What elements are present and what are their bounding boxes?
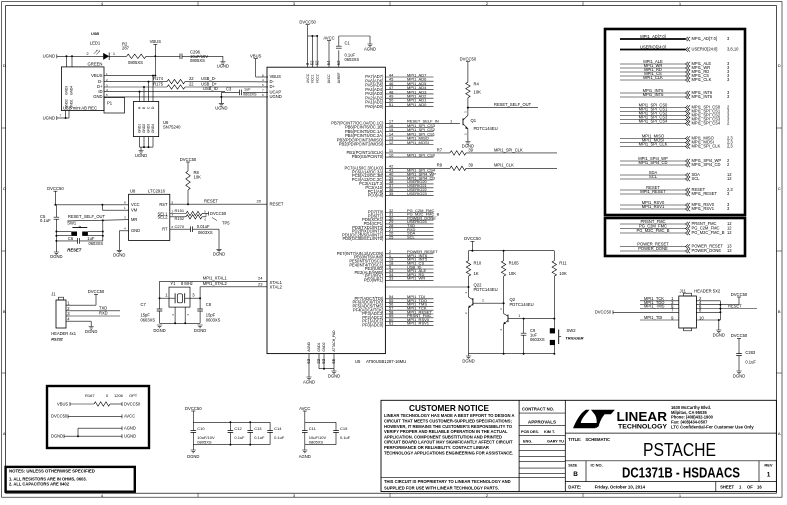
- svg-text:PDTC144EU: PDTC144EU: [474, 126, 498, 131]
- svg-text:10K: 10K: [509, 271, 517, 276]
- capacitor C1 0.1uF 0603XS: [338, 50, 340, 67]
- svg-text:R9: R9: [437, 163, 443, 168]
- svg-text:D-: D-: [98, 79, 103, 84]
- svg-text:RESET: RESET: [270, 201, 284, 206]
- svg-text:0603XS: 0603XS: [89, 241, 104, 246]
- svg-text:24: 24: [258, 276, 263, 281]
- svg-text:33: 33: [389, 276, 394, 281]
- svg-text:0.1uF: 0.1uF: [40, 218, 51, 223]
- svg-text:DGND: DGND: [328, 373, 340, 378]
- svg-text:3,8,10: 3,8,10: [727, 47, 739, 52]
- wire Q2 base to C9/SW2: [508, 318, 554, 320]
- svg-text:VCC: VCC: [131, 202, 140, 207]
- svg-text:DGND: DGND: [462, 144, 474, 149]
- svg-text:PDTC144EU: PDTC144EU: [474, 287, 498, 292]
- svg-text:PDTC144EU: PDTC144EU: [510, 302, 534, 307]
- svg-text:SEL2: SEL2: [157, 215, 168, 220]
- svg-text:DGND: DGND: [187, 454, 199, 459]
- svg-text:HOWEVER, IT REMAINS THE CUSTOM: HOWEVER, IT REMAINS THE CUSTOMER’S RESPO…: [384, 424, 513, 429]
- svg-text:0.1uF: 0.1uF: [340, 435, 351, 440]
- wire R2 to C296: [146, 55, 180, 57]
- svg-text:UGND: UGND: [215, 106, 227, 111]
- svg-text:POWER_DONE: POWER_DONE: [638, 246, 668, 251]
- U6 pins down to UGND: [139, 137, 141, 148]
- svg-text:ATTACH_PAD: ATTACH_PAD: [332, 330, 336, 352]
- capacitor C11 10uF/10V: [304, 422, 306, 430]
- svg-text:AGND: AGND: [299, 454, 311, 459]
- svg-text:R11: R11: [559, 260, 567, 265]
- svg-text:LINEAR: LINEAR: [617, 410, 668, 424]
- wire net USB_D+ : P1 to IC D+: [104, 86, 167, 88]
- svg-text:KIM T.: KIM T.: [544, 430, 555, 434]
- svg-text:C3: C3: [226, 86, 232, 91]
- ground DGND (C7): [157, 325, 162, 328]
- svg-text:DVCC50: DVCC50: [47, 186, 64, 191]
- wire U8 GND to DGND: [119, 230, 128, 232]
- svg-text:RXD: RXD: [99, 311, 108, 316]
- LT logo: [573, 410, 599, 428]
- svg-text:PF0(ADC0): PF0(ADC0): [362, 323, 384, 328]
- svg-text:MPI1_TMS: MPI1_TMS: [644, 304, 665, 309]
- svg-text:UGND: UGND: [43, 115, 55, 120]
- svg-text:0603XS: 0603XS: [198, 230, 213, 235]
- svg-text:0603XS: 0603XS: [530, 337, 545, 342]
- svg-text:OPT: OPT: [129, 393, 138, 398]
- svg-text:0603XS: 0603XS: [243, 93, 257, 97]
- svg-text:MPI1_AD0: MPI1_AD0: [407, 102, 427, 107]
- svg-text:AVCC: AVCC: [124, 414, 135, 419]
- svg-text:SHEET: SHEET: [720, 485, 734, 490]
- svg-text:PE0(WRL): PE0(WRL): [364, 278, 384, 283]
- ground DGND (C270): [216, 249, 221, 252]
- wire net UGND row P1 GND to IC UGND: [104, 96, 268, 98]
- svg-text:P1: P1: [107, 101, 113, 106]
- capacitor C15 0.1uF: [335, 422, 337, 430]
- svg-text:THIS CIRCUIT IS PROPRIETARY TO: THIS CIRCUIT IS PROPRIETARY TO LINEAR TE…: [384, 479, 511, 484]
- svg-text:USB_D-: USB_D-: [201, 76, 217, 81]
- svg-text:C11: C11: [309, 426, 317, 431]
- svg-text:R151: R151: [175, 208, 185, 213]
- svg-text:Q1: Q1: [471, 118, 477, 123]
- svg-text:R4: R4: [474, 81, 480, 86]
- svg-text:DGND: DGND: [733, 373, 745, 378]
- svg-text:UGND: UGND: [270, 94, 282, 99]
- svg-text:MPI1_SPI_CLK: MPI1_SPI_CLK: [692, 144, 721, 149]
- svg-text:AGND: AGND: [364, 46, 376, 51]
- svg-text:20: 20: [257, 199, 262, 204]
- power option box with R167: [47, 386, 149, 448]
- svg-text:DGND: DGND: [113, 252, 125, 257]
- svg-text:DVCC50: DVCC50: [464, 236, 481, 241]
- svg-text:R7: R7: [437, 147, 443, 152]
- svg-text:GND2: GND2: [142, 124, 146, 133]
- capacitor C9 1uF 0603XS: [523, 318, 525, 333]
- svg-text:MPI1_RSV1: MPI1_RSV1: [642, 204, 665, 209]
- svg-text:MPI1_AD[7:0]: MPI1_AD[7:0]: [640, 34, 665, 39]
- wire net USB_ID: [104, 91, 225, 93]
- svg-text:VCC1: VCC1: [311, 74, 315, 83]
- svg-text:39: 39: [468, 163, 473, 168]
- svg-text:C7: C7: [141, 302, 147, 307]
- svg-text:DGND: DGND: [51, 434, 63, 439]
- svg-text:UVCC: UVCC: [306, 73, 310, 83]
- svg-text:GND1: GND1: [70, 99, 74, 108]
- svg-text:GND: GND: [131, 228, 140, 233]
- svg-text:VBUS: VBUS: [91, 73, 103, 78]
- ground AGND (C1): [367, 44, 372, 47]
- junction dots P1 top pins on LED wire: [65, 55, 67, 57]
- svg-text:NOTES: UNLESS OTHERWISE SPECI: NOTES: UNLESS OTHERWISE SPECIFIED: [9, 469, 95, 474]
- svg-text:R10: R10: [474, 260, 482, 265]
- svg-text:16: 16: [757, 485, 762, 490]
- svg-text:MPI1_WR: MPI1_WR: [407, 276, 425, 281]
- svg-text:0603XS: 0603XS: [345, 57, 360, 62]
- J11 pins 3/4 MPI1_TDO: [640, 304, 679, 306]
- ground AGND (U5): [306, 377, 311, 380]
- svg-text:DATE:: DATE:: [568, 485, 582, 490]
- svg-text:GREEN: GREEN: [88, 61, 103, 66]
- svg-text:0805XS: 0805XS: [128, 60, 143, 65]
- J11 pins 5/6 MPI1_TMS: [640, 308, 679, 310]
- svg-text:22: 22: [189, 81, 194, 86]
- svg-text:0805XS: 0805XS: [190, 58, 205, 63]
- testpoint TP5: [212, 218, 217, 221]
- wire AGND joint: [78, 427, 122, 429]
- wire P1 VBUS to VBUS net: [104, 75, 155, 77]
- svg-text:B: B: [3, 309, 6, 314]
- svg-text:C10: C10: [197, 426, 205, 431]
- svg-text:J1: J1: [51, 292, 56, 297]
- svg-text:51: 51: [389, 102, 394, 107]
- svg-text:35: 35: [389, 191, 394, 196]
- svg-text:PB2(PDI/PCINT2/MOSI): PB2(PDI/PCINT2/MOSI): [339, 142, 384, 147]
- resistor R11 10K: [552, 261, 556, 277]
- svg-text:DGND: DGND: [85, 329, 97, 334]
- wire crystal case pins to ground rail: [174, 307, 176, 323]
- svg-text:SUPPLIED FOR USE WITH LINEAR T: SUPPLIED FOR USE WITH LINEAR TECHNOLOGY …: [384, 486, 499, 491]
- svg-text:R175: R175: [153, 81, 164, 86]
- svg-text:RESET: RESET: [204, 199, 218, 204]
- ground DGND (Q1): [465, 142, 470, 145]
- wire XTAL2 down to C8: [199, 287, 201, 309]
- svg-text:XTAL2: XTAL2: [270, 284, 283, 289]
- svg-text:0805XS: 0805XS: [197, 440, 212, 445]
- svg-text:AGND: AGND: [307, 341, 311, 351]
- svg-text:0.1uF: 0.1uF: [745, 359, 756, 364]
- wire net RESET_SELF_OUT: [468, 107, 538, 109]
- P1 pins GND1/GND2 down to UGND: [65, 111, 67, 119]
- svg-text:IC NO.: IC NO.: [591, 463, 603, 468]
- svg-text:OF: OF: [747, 485, 753, 490]
- svg-text:DVCC50: DVCC50: [731, 292, 748, 297]
- svg-text:RESET_SELF_OUT: RESET_SELF_OUT: [494, 102, 532, 107]
- svg-text:DVCC50: DVCC50: [124, 401, 141, 406]
- svg-text:SN75240: SN75240: [163, 125, 181, 130]
- svg-text:USB_ID: USB_ID: [203, 86, 218, 91]
- wire trigger bottom rail: [469, 353, 555, 355]
- svg-text:D: D: [3, 63, 6, 68]
- svg-text:MPI1_RESET: MPI1_RESET: [692, 191, 718, 196]
- svg-text:2,3: 2,3: [727, 144, 733, 149]
- svg-text:UGND: UGND: [43, 54, 55, 59]
- wire trigger top rail: [469, 250, 555, 252]
- svg-text:DGND: DGND: [213, 251, 225, 256]
- svg-text:DVCC50: DVCC50: [299, 20, 316, 25]
- svg-text:DC1371B - HSDAACS: DC1371B - HSDAACS: [622, 466, 740, 482]
- svg-text:DGND: DGND: [462, 358, 474, 363]
- IC U8 LTC2916: [129, 194, 170, 240]
- svg-text:AVCC: AVCC: [327, 74, 331, 84]
- svg-text:DVCC50: DVCC50: [595, 310, 612, 315]
- svg-text:DGND: DGND: [194, 328, 206, 333]
- svg-text:USB: USB: [91, 32, 99, 36]
- wire UGND to LED1: [57, 55, 103, 57]
- svg-text:PD0(OC0B/SCL/INT0): PD0(OC0B/SCL/INT0): [342, 236, 384, 241]
- svg-text:10K: 10K: [559, 271, 567, 276]
- capacitor C12 0.1uF: [229, 422, 231, 430]
- svg-text:0805XS: 0805XS: [309, 440, 324, 445]
- svg-text:TECHNOLOGY: TECHNOLOGY: [618, 424, 667, 431]
- svg-text:GND1: GND1: [317, 342, 321, 351]
- size/icno/rev row: [585, 461, 587, 482]
- svg-text:C13: C13: [254, 426, 262, 431]
- svg-text:C1: C1: [345, 41, 351, 46]
- svg-text:GARY YU: GARY YU: [547, 440, 564, 444]
- svg-text:GND4: GND4: [151, 124, 155, 133]
- svg-text:SCL: SCL: [407, 234, 416, 239]
- svg-text:R167: R167: [85, 393, 95, 398]
- svg-text:1: 1: [482, 299, 484, 303]
- svg-text:0.1uF: 0.1uF: [274, 435, 285, 440]
- svg-text:C8: C8: [206, 302, 212, 307]
- svg-text:RT: RT: [162, 226, 168, 231]
- svg-text:PSTACHE: PSTACHE: [643, 439, 716, 460]
- svg-text:DGND: DGND: [713, 332, 725, 337]
- svg-text:MPI1_SPI_CS4: MPI1_SPI_CS4: [692, 121, 721, 126]
- ground UGND (below C3): [219, 103, 224, 106]
- svg-text:0.1uF: 0.1uF: [254, 435, 265, 440]
- svg-text:HEADER 5X2: HEADER 5X2: [694, 289, 721, 294]
- svg-text:APPLICATION. COMPONENT SUBSTI: APPLICATION. COMPONENT SUBSTITUTION AND …: [384, 434, 502, 439]
- svg-text:12: 12: [727, 176, 732, 181]
- svg-text:SCHEMATIC: SCHEMATIC: [585, 437, 610, 442]
- svg-text:SW2: SW2: [567, 328, 577, 333]
- svg-text:GND: GND: [93, 94, 102, 99]
- svg-text:1: 1: [518, 314, 520, 318]
- ground UGND (below U6): [138, 151, 143, 154]
- wire C296 to UGND: [182, 55, 223, 57]
- svg-text:PB0(SS/PCINT0): PB0(SS/PCINT0): [352, 154, 384, 159]
- wire net RESET : U8 RST to IC pin 20: [170, 203, 267, 205]
- svg-text:287: 287: [122, 46, 130, 51]
- svg-text:0603XS: 0603XS: [141, 317, 156, 322]
- svg-text:VERIFY PROPER AND RELIABLE OPE: VERIFY PROPER AND RELIABLE OPERATION IN …: [384, 429, 508, 434]
- svg-text:DVCC50: DVCC50: [180, 157, 197, 162]
- svg-text:10K: 10K: [194, 175, 202, 180]
- wire DVCC50 to U8 VCC: [55, 204, 128, 206]
- capacitor C14 0.1uF: [269, 422, 271, 430]
- resistor R4 10K: [466, 82, 470, 97]
- svg-text:PA0(AD0): PA0(AD0): [365, 104, 384, 109]
- svg-text:TITLE:: TITLE:: [568, 437, 581, 442]
- svg-text:GND1: GND1: [138, 124, 142, 133]
- svg-text:C: C: [778, 186, 781, 191]
- P1 pins GND3/GND4 up to UGND wire: [65, 56, 67, 67]
- svg-text:10K: 10K: [474, 89, 482, 94]
- resistor R10 1K: [466, 261, 470, 277]
- svg-text:GND4: GND4: [70, 86, 74, 95]
- svg-text:C12: C12: [234, 426, 242, 431]
- svg-text:R152: R152: [175, 216, 185, 221]
- svg-text:MR: MR: [131, 217, 137, 222]
- transistor Q1 PDTC144EU: [462, 118, 464, 125]
- switch SW2 TRIGGER: [550, 328, 555, 333]
- capacitor C296 10uF/10V: [180, 54, 182, 60]
- capacitor C3 1uF 0603XS on UCAP: [243, 91, 268, 93]
- svg-text:MPI1_MOSI: MPI1_MOSI: [407, 140, 429, 145]
- ground DGND (C8): [198, 325, 203, 328]
- svg-text:0603XS: 0603XS: [206, 317, 221, 322]
- svg-text:AT90USB1287-16MU: AT90USB1287-16MU: [366, 359, 406, 364]
- svg-text:PCB DES.: PCB DES.: [521, 430, 539, 434]
- power bracket DVCC50 (SEL): [208, 212, 210, 216]
- svg-text:13: 13: [727, 248, 732, 253]
- ground DGND (cap bank): [191, 450, 196, 453]
- svg-text:C15: C15: [340, 426, 348, 431]
- svg-text:A: A: [3, 431, 6, 436]
- svg-text:DVCC50: DVCC50: [88, 289, 105, 294]
- svg-text:DVCC50: DVCC50: [51, 414, 68, 419]
- ground DGND (U5): [331, 371, 336, 374]
- svg-text:MPI1_SPI4_CD: MPI1_SPI4_CD: [639, 160, 668, 165]
- svg-text:12: 12: [389, 140, 394, 145]
- notes box: [6, 467, 135, 492]
- svg-text:CIRCUIT BOARD LAYOUT MAY SIGNI: CIRCUIT BOARD LAYOUT MAY SIGNIFICANTLY A…: [384, 440, 513, 445]
- svg-text:PG_M2C_FMC_B: PG_M2C_FMC_B: [692, 230, 725, 235]
- wire net to Q22 base: [385, 286, 468, 288]
- ground DGND (trigger): [466, 356, 471, 359]
- svg-text:10: 10: [699, 315, 704, 320]
- svg-text:C270: C270: [175, 224, 185, 229]
- svg-text:LINEAR TECHNOLOGY HAS MADE A B: LINEAR TECHNOLOGY HAS MADE A BEST EFFORT…: [384, 413, 515, 418]
- svg-text:DVCC50: DVCC50: [185, 406, 202, 411]
- svg-text:D: D: [778, 63, 781, 68]
- svg-text:VBUS: VBUS: [250, 54, 262, 59]
- svg-text:B: B: [573, 471, 578, 478]
- wire LED1 to R2: [109, 55, 126, 57]
- svg-text:UGND: UGND: [135, 153, 147, 158]
- svg-text:MPI1_RSV1: MPI1_RSV1: [692, 206, 715, 211]
- svg-text:MPI1_SPI_CLK: MPI1_SPI_CLK: [494, 147, 523, 152]
- svg-text:R174: R174: [153, 76, 164, 81]
- resistors R151 R152 on SEL1/SEL2: [170, 213, 186, 215]
- svg-text:U5: U5: [355, 359, 361, 364]
- svg-text:POWER_DONE: POWER_DONE: [692, 248, 722, 253]
- IC U6 SN75240 usb transient suppressor: [134, 102, 159, 137]
- wire net USB_D- : P1 to IC D-: [104, 81, 167, 83]
- svg-text:GND2: GND2: [65, 99, 69, 108]
- resistor R165 10K: [501, 261, 505, 277]
- svg-text:GND3: GND3: [147, 124, 151, 133]
- svg-text:USERIO[24:0]: USERIO[24:0]: [692, 47, 718, 52]
- svg-text:MPI1_RESET: MPI1_RESET: [640, 189, 666, 194]
- svg-text:RST: RST: [159, 202, 168, 207]
- svg-text:0.01uF: 0.01uF: [197, 224, 210, 229]
- wire J1 pin4 to DGND: [70, 320, 91, 322]
- svg-text:22: 22: [189, 76, 194, 81]
- svg-text:AVCC: AVCC: [323, 35, 334, 40]
- svg-text:LTC2916: LTC2916: [148, 189, 166, 194]
- ground DGND (C283): [736, 371, 741, 374]
- svg-text:MPI1_CLK: MPI1_CLK: [494, 163, 514, 168]
- svg-text:B: B: [778, 309, 781, 314]
- svg-text:LTC Confidential-For Customer: LTC Confidential-For Customer Use Only: [671, 425, 754, 430]
- wire J11 pin10 to DGND: [718, 320, 720, 330]
- off-page connector box (FMC/power nets): [605, 218, 745, 256]
- J11 right bus: [719, 301, 721, 320]
- ground UGND (right of C296): [220, 62, 225, 65]
- svg-text:MPI1_CLK: MPI1_CLK: [692, 77, 712, 82]
- svg-text:DVCC50: DVCC50: [460, 57, 477, 62]
- svg-text:1206: 1206: [114, 393, 124, 398]
- svg-text:Friday, October 10, 2014: Friday, October 10, 2014: [595, 485, 646, 490]
- svg-text:61: 61: [389, 321, 394, 326]
- svg-text:8 MHz: 8 MHz: [181, 281, 193, 286]
- svg-text:RESET: RESET: [728, 303, 742, 308]
- svg-text:REV: REV: [764, 463, 773, 468]
- svg-text:U8: U8: [130, 189, 136, 194]
- svg-text:APPROVALS: APPROVALS: [528, 419, 556, 424]
- svg-text:VBUS: VBUS: [150, 39, 162, 44]
- svg-text:VM: VM: [131, 208, 138, 213]
- svg-text:Y1: Y1: [170, 281, 176, 286]
- svg-text:0.1uF: 0.1uF: [234, 435, 245, 440]
- svg-text:RESET: RESET: [67, 248, 81, 253]
- svg-text:USERIO23: USERIO23: [407, 191, 428, 196]
- svg-text:DGND: DGND: [50, 254, 62, 259]
- svg-text:A: A: [778, 431, 781, 436]
- svg-text:CIRCUIT THAT MEETS CUSTOMER-SU: CIRCUIT THAT MEETS CUSTOMER-SUPPLIED SPE…: [384, 419, 512, 424]
- J11 pins 1/2 MPI1_TCK: [640, 300, 679, 302]
- capacitor C13 0.1uF: [249, 422, 251, 430]
- svg-text:1: 1: [767, 471, 771, 478]
- svg-text:MPI1_AD[7:0]: MPI1_AD[7:0]: [692, 36, 717, 41]
- ground AGND (cap bank): [302, 450, 307, 453]
- microcontroller U5 AT90USB1287-16MU: [267, 67, 385, 353]
- svg-text:PG_M2C_FMC_B: PG_M2C_FMC_B: [637, 228, 670, 233]
- J11 pins 7/8: [640, 311, 679, 313]
- svg-text:MPI1_SPI_CS0: MPI1_SPI_CS0: [407, 152, 436, 157]
- svg-text:MPI1_RSV1: MPI1_RSV1: [407, 321, 430, 326]
- capacitor C10 10uF/10V: [192, 422, 194, 430]
- wire Q22 base to Q2: [473, 302, 504, 304]
- svg-text:C14: C14: [274, 426, 282, 431]
- svg-text:UGND: UGND: [124, 434, 136, 439]
- svg-text:RS232: RS232: [51, 338, 63, 342]
- approvals column: [519, 412, 565, 414]
- svg-text:GND3: GND3: [65, 86, 69, 95]
- svg-text:RESET_SELF_OUT: RESET_SELF_OUT: [68, 214, 106, 219]
- title block: [381, 400, 776, 491]
- svg-text:25: 25: [389, 234, 394, 239]
- svg-text:LED1: LED1: [90, 41, 101, 46]
- ground DGND (below C5): [54, 252, 59, 255]
- svg-text:2. ALL CAPACITORS ARE 0402: 2. ALL CAPACITORS ARE 0402: [9, 482, 70, 487]
- svg-text:MPI1_CLK: MPI1_CLK: [643, 75, 663, 80]
- svg-text:J11: J11: [680, 289, 687, 294]
- svg-text:MPI1_XTAL2: MPI1_XTAL2: [203, 281, 228, 286]
- svg-text:VBUS: VBUS: [57, 401, 68, 406]
